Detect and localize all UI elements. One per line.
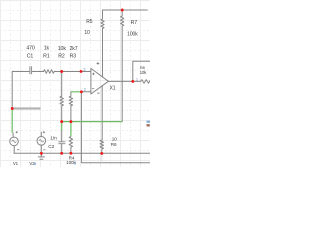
- svg-text:100k: 100k: [127, 31, 138, 37]
- svg-text:10k: 10k: [140, 70, 147, 75]
- svg-text:V1: V1: [13, 161, 19, 166]
- svg-text:R6: R6: [111, 142, 117, 147]
- svg-text:R1: R1: [43, 54, 50, 60]
- svg-text:1/n: 1/n: [50, 136, 57, 142]
- svg-text:470: 470: [26, 45, 35, 51]
- svg-text:R5: R5: [86, 19, 93, 25]
- svg-text:R2: R2: [58, 54, 65, 60]
- svg-text:1k: 1k: [44, 45, 50, 51]
- svg-text:2k7: 2k7: [69, 46, 77, 52]
- svg-text:R3: R3: [70, 54, 77, 60]
- svg-text:R7: R7: [131, 20, 138, 26]
- svg-text:C1: C1: [27, 54, 34, 60]
- svg-text:10: 10: [112, 136, 117, 141]
- svg-text:10k: 10k: [58, 46, 67, 52]
- svg-text:C2: C2: [48, 144, 54, 150]
- svg-text:10: 10: [84, 30, 90, 36]
- svg-text:X1: X1: [110, 86, 116, 92]
